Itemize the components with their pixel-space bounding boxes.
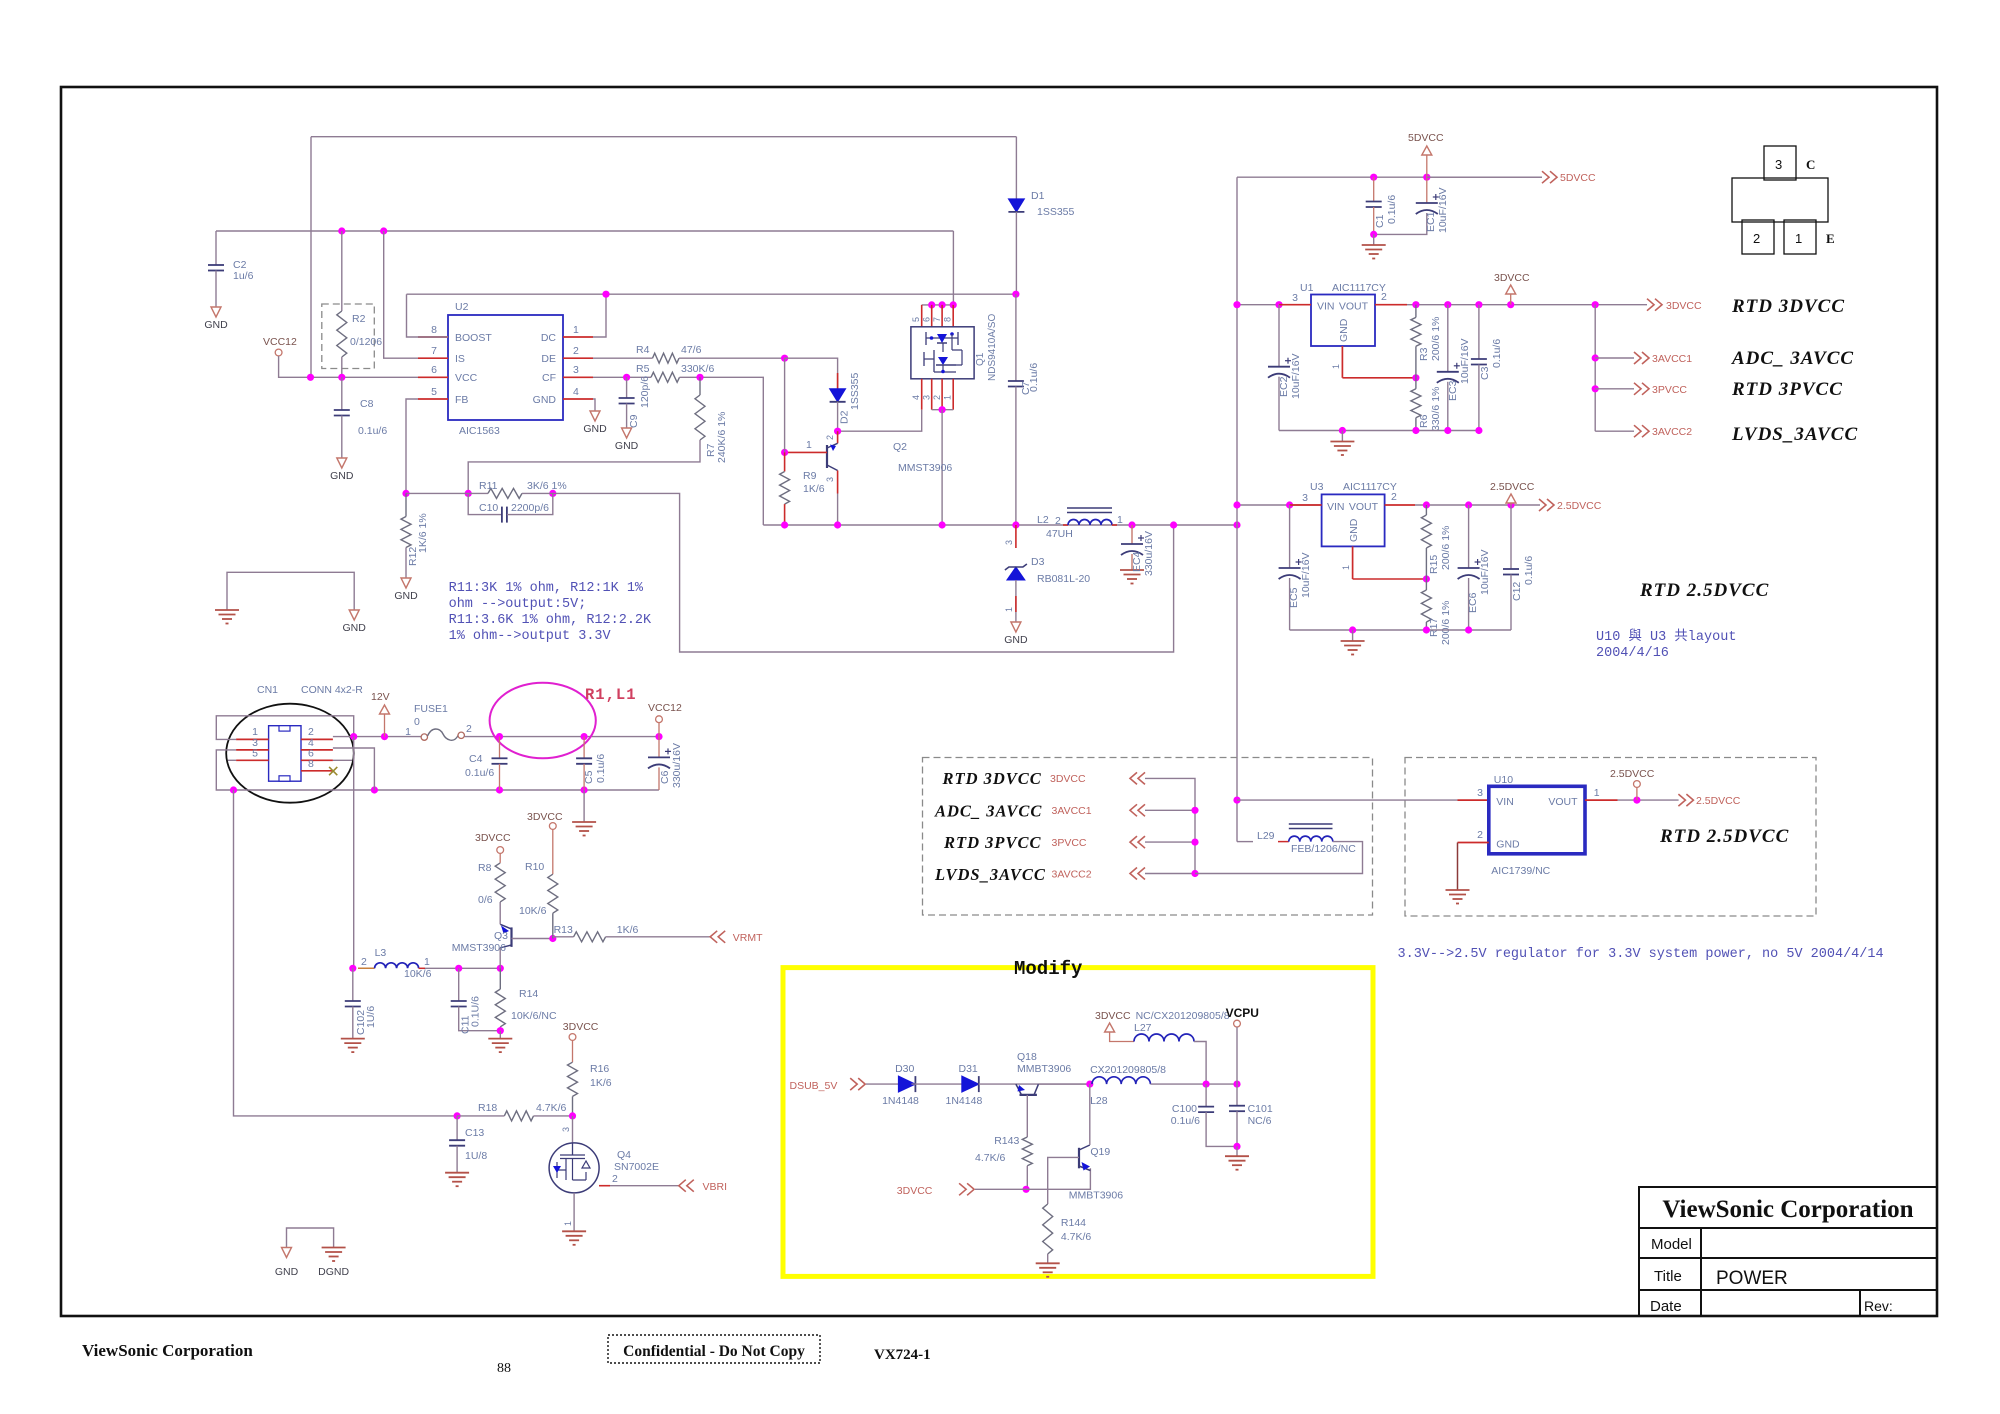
U2 pin 1 DC bbox=[563, 336, 593, 338]
connector CN1 body bbox=[269, 726, 301, 782]
svg-text:3: 3 bbox=[1775, 157, 1782, 172]
svg-text:C3: C3 bbox=[1479, 366, 1491, 380]
U2 pin 2 DE bbox=[563, 357, 593, 359]
connector CN1 ellipse bbox=[226, 704, 354, 803]
svg-text:R16: R16 bbox=[590, 1063, 609, 1075]
svg-text:D31: D31 bbox=[959, 1063, 978, 1075]
capacitor C1 bbox=[1373, 177, 1375, 201]
Q4 drain to VBRI bbox=[599, 1185, 610, 1187]
resistor R2 (dashed optional) bbox=[322, 304, 375, 369]
svg-text:4.7K/6: 4.7K/6 bbox=[975, 1152, 1006, 1164]
svg-text:NDS9410A/SO: NDS9410A/SO bbox=[987, 314, 998, 381]
wire L28 to VCPU node bbox=[1150, 1083, 1237, 1085]
op-amp U10 AIC1739/NC regulator bbox=[1489, 786, 1585, 854]
svg-text:2: 2 bbox=[1381, 291, 1387, 303]
wire DC rail y294 bbox=[407, 293, 1016, 295]
svg-text:SN7002E: SN7002E bbox=[614, 1161, 659, 1173]
svg-text:U10 與 U3 共layout: U10 與 U3 共layout bbox=[1596, 628, 1736, 645]
svg-text:GND: GND bbox=[275, 1266, 299, 1278]
resistor R143 bbox=[1022, 1137, 1032, 1166]
svg-text:GND: GND bbox=[394, 590, 418, 602]
wire gnd branch down to R18 row bbox=[234, 790, 458, 1116]
svg-text:5: 5 bbox=[252, 748, 258, 760]
svg-text:DSUB_5V: DSUB_5V bbox=[790, 1080, 838, 1092]
svg-text:GND: GND bbox=[1004, 634, 1028, 646]
wire top rail from C2 bbox=[216, 230, 953, 232]
capacitor C3 bbox=[1478, 305, 1480, 359]
svg-text:2: 2 bbox=[1055, 515, 1061, 527]
op-amp U2 AIC1563 regulator IC bbox=[448, 315, 563, 420]
svg-text:2.5DVCC: 2.5DVCC bbox=[1557, 500, 1602, 512]
wire fuse to VCC12 bbox=[464, 736, 659, 738]
svg-text:EC3: EC3 bbox=[1447, 380, 1459, 401]
svg-text:RTD 3DVCC: RTD 3DVCC bbox=[1731, 296, 1845, 317]
svg-text:DE: DE bbox=[541, 353, 556, 365]
wire L29 return to taps bbox=[1195, 842, 1363, 874]
svg-text:U3: U3 bbox=[1310, 481, 1324, 493]
wire R5 output down to switch rail bbox=[680, 377, 764, 525]
svg-text:VIN: VIN bbox=[1496, 796, 1514, 808]
svg-text:D30: D30 bbox=[895, 1063, 914, 1075]
svg-text:2: 2 bbox=[361, 956, 367, 968]
svg-text:C101: C101 bbox=[1248, 1103, 1273, 1115]
wire Q1 bottom bus bbox=[932, 409, 954, 411]
svg-text:3AVCC1: 3AVCC1 bbox=[1052, 805, 1092, 817]
svg-text:R8: R8 bbox=[478, 862, 492, 874]
transistor Q1 NDS9410A/SO mosfet bbox=[922, 304, 954, 306]
svg-text:GND: GND bbox=[1348, 518, 1360, 542]
svg-text:4.7K/6: 4.7K/6 bbox=[536, 1102, 567, 1114]
resistor R3 bbox=[1415, 305, 1417, 318]
svg-text:R18: R18 bbox=[478, 1102, 497, 1114]
svg-text:7: 7 bbox=[431, 345, 437, 357]
resistor R14 bbox=[499, 968, 501, 989]
svg-text:U10: U10 bbox=[1494, 774, 1513, 786]
svg-text:120p/6: 120p/6 bbox=[639, 376, 651, 408]
svg-text:VIN: VIN bbox=[1317, 301, 1335, 313]
dashed box RTD rails bbox=[923, 758, 1373, 916]
svg-text:10uF/16V: 10uF/16V bbox=[1459, 338, 1471, 384]
svg-text:2200p/6: 2200p/6 bbox=[511, 502, 549, 514]
svg-text:0/6: 0/6 bbox=[478, 894, 493, 906]
svg-text:5DVCC: 5DVCC bbox=[1408, 132, 1444, 144]
resistor R11 bbox=[488, 488, 522, 498]
diode D31 1N4148 bbox=[962, 1076, 979, 1092]
svg-text:Modify: Modify bbox=[1014, 958, 1083, 980]
svg-text:ohm -->output:5V;: ohm -->output:5V; bbox=[449, 597, 587, 612]
svg-text:2: 2 bbox=[1753, 231, 1760, 246]
wire tap rows and vertical bbox=[1145, 778, 1195, 873]
svg-text:200/6 1%: 200/6 1% bbox=[1440, 526, 1452, 570]
svg-text:D1: D1 bbox=[1031, 190, 1045, 202]
svg-text:0.1u/6: 0.1u/6 bbox=[1028, 363, 1040, 392]
svg-text:3AVCC1: 3AVCC1 bbox=[1652, 353, 1692, 365]
svg-text:R143: R143 bbox=[994, 1135, 1019, 1147]
svg-text:R10: R10 bbox=[525, 861, 544, 873]
U3 pin 2 VOUT bbox=[1385, 504, 1415, 506]
svg-text:1: 1 bbox=[1117, 514, 1123, 526]
CN1 pin 3 bbox=[236, 749, 269, 751]
svg-text:2: 2 bbox=[573, 345, 579, 357]
off-page connector 3AVCC1 bbox=[1595, 357, 1634, 359]
svg-text:47/6: 47/6 bbox=[681, 344, 702, 356]
resistor R16 bbox=[568, 1062, 578, 1096]
svg-text:5: 5 bbox=[431, 386, 437, 398]
resistor R7 bbox=[699, 377, 701, 395]
svg-text:Title: Title bbox=[1654, 1268, 1682, 1285]
svg-text:RTD 2.5DVCC: RTD 2.5DVCC bbox=[1639, 580, 1769, 601]
svg-text:1: 1 bbox=[806, 439, 812, 451]
svg-text:R144: R144 bbox=[1061, 1217, 1086, 1229]
wire Q1 gate feed x953 from C2 rail bbox=[952, 231, 954, 305]
svg-text:0/1206: 0/1206 bbox=[350, 336, 382, 348]
U2 pin 6 VCC bbox=[418, 376, 448, 378]
svg-text:GND: GND bbox=[583, 423, 607, 435]
svg-text:6: 6 bbox=[431, 364, 437, 376]
svg-text:LVDS_3AVCC: LVDS_3AVCC bbox=[1731, 424, 1858, 445]
svg-text:DC: DC bbox=[541, 332, 557, 344]
ground GND DGND pair bbox=[287, 1228, 334, 1248]
svg-text:EC6: EC6 bbox=[1467, 592, 1479, 613]
svg-text:1N4148: 1N4148 bbox=[882, 1095, 919, 1107]
svg-text:CF: CF bbox=[542, 372, 556, 384]
svg-text:BOOST: BOOST bbox=[455, 332, 492, 344]
svg-text:3DVCC: 3DVCC bbox=[1095, 1010, 1131, 1022]
svg-text:10K/6: 10K/6 bbox=[519, 905, 547, 917]
svg-text:1% ohm-->output 3.3V: 1% ohm-->output 3.3V bbox=[449, 629, 612, 644]
capacitor C102 bbox=[352, 968, 354, 1001]
ground tie wire bbox=[227, 572, 354, 610]
svg-text:10uF/16V: 10uF/16V bbox=[1290, 353, 1302, 399]
wire CN1 pin1-pin2 loop bbox=[216, 716, 353, 740]
off-page connector 2.5DVCC at U10 bbox=[1686, 794, 1693, 806]
wire U1 VIN row bbox=[1237, 304, 1311, 306]
wire D30 to D31 bbox=[911, 1083, 961, 1085]
svg-text:2: 2 bbox=[932, 395, 942, 400]
ground at U3 bbox=[1352, 630, 1354, 641]
svg-text:MMST3906: MMST3906 bbox=[452, 942, 506, 954]
svg-text:R11: R11 bbox=[479, 480, 498, 492]
svg-text:3: 3 bbox=[561, 1127, 571, 1132]
wire Q2 base bbox=[785, 451, 827, 453]
wire U1 ground rail bbox=[1279, 430, 1479, 432]
resistor R4 bbox=[653, 353, 680, 363]
capacitor C12 bbox=[1510, 505, 1512, 569]
svg-text:C: C bbox=[1806, 157, 1815, 172]
wire U3 VIN row bbox=[1237, 504, 1322, 506]
svg-text:5: 5 bbox=[911, 317, 921, 322]
U2 pin 4 GND bbox=[563, 398, 593, 400]
svg-text:C6: C6 bbox=[659, 770, 671, 784]
svg-text:4: 4 bbox=[911, 395, 921, 400]
wire CN1 pin5 stub bbox=[228, 759, 236, 761]
svg-text:10K/6: 10K/6 bbox=[404, 968, 432, 980]
svg-text:RTD 2.5DVCC: RTD 2.5DVCC bbox=[1659, 826, 1789, 847]
svg-text:C12: C12 bbox=[1511, 582, 1523, 601]
resistor R8 bbox=[495, 863, 505, 902]
wire upper rail to D1 bbox=[311, 136, 1016, 138]
svg-text:8: 8 bbox=[308, 758, 314, 770]
svg-text:7: 7 bbox=[932, 317, 942, 322]
capacitor EC5 bbox=[1289, 505, 1291, 568]
wire 3DVCC row bbox=[975, 1168, 1090, 1189]
capacitor C9 bbox=[626, 377, 628, 398]
node FB divider bbox=[402, 490, 409, 497]
svg-text:U1: U1 bbox=[1300, 282, 1314, 294]
diode D1 1SS355 bbox=[1015, 137, 1017, 199]
inductor L29 FEB/1206/NC bbox=[1237, 841, 1253, 843]
wire feedback from divider to output bbox=[553, 493, 1174, 652]
svg-text:R3: R3 bbox=[1418, 347, 1430, 361]
resistor R12 bbox=[405, 493, 407, 516]
svg-text:Q4: Q4 bbox=[617, 1149, 631, 1161]
svg-text:C100: C100 bbox=[1172, 1103, 1197, 1115]
svg-text:2: 2 bbox=[1391, 491, 1397, 503]
svg-text:MMST3906: MMST3906 bbox=[898, 462, 952, 474]
svg-text:12V: 12V bbox=[371, 691, 390, 703]
capacitor C4 bbox=[499, 737, 501, 759]
svg-text:10uF/16V: 10uF/16V bbox=[1437, 187, 1449, 233]
svg-text:C4: C4 bbox=[469, 753, 483, 765]
svg-text:R4: R4 bbox=[636, 344, 650, 356]
capacitor C7 bbox=[1015, 294, 1017, 381]
svg-text:GND: GND bbox=[343, 622, 367, 634]
svg-text:1N4148: 1N4148 bbox=[946, 1095, 983, 1107]
svg-text:R9: R9 bbox=[803, 470, 817, 482]
svg-text:MMBT3906: MMBT3906 bbox=[1069, 1190, 1123, 1202]
svg-text:47UH: 47UH bbox=[1046, 528, 1073, 540]
wire DSUB to D30 bbox=[866, 1083, 898, 1085]
svg-text:3AVCC2: 3AVCC2 bbox=[1652, 426, 1692, 438]
resistor R9 bbox=[784, 452, 786, 471]
svg-text:3DVCC: 3DVCC bbox=[527, 811, 563, 823]
svg-text:RB081L-20: RB081L-20 bbox=[1037, 573, 1090, 585]
svg-text:C5: C5 bbox=[583, 770, 595, 784]
resistor R18 bbox=[454, 1112, 461, 1119]
capacitor C2 bbox=[215, 231, 217, 265]
wire main supply vertical bbox=[1236, 177, 1238, 841]
svg-text:Q1: Q1 bbox=[975, 352, 986, 366]
off-page connector 3DVCC bbox=[1655, 299, 1662, 311]
wire U3 output row bbox=[1415, 504, 1540, 506]
svg-text:3.3V-->2.5V regulator for 3.3V: 3.3V-->2.5V regulator for 3.3V system po… bbox=[1398, 947, 1884, 962]
svg-text:Q18: Q18 bbox=[1017, 1051, 1037, 1063]
svg-text:3PVCC: 3PVCC bbox=[1652, 384, 1687, 396]
svg-text:VRMT: VRMT bbox=[733, 932, 763, 944]
svg-text:1: 1 bbox=[1341, 565, 1351, 570]
wire DC pin up bbox=[593, 294, 606, 337]
wire U3 ground rail bbox=[1290, 629, 1511, 631]
svg-text:CX201209805/8: CX201209805/8 bbox=[1090, 1064, 1166, 1076]
svg-text:Confidential - Do Not Copy: Confidential - Do Not Copy bbox=[623, 1343, 805, 1360]
svg-text:8: 8 bbox=[943, 317, 953, 322]
svg-text:2.5DVCC: 2.5DVCC bbox=[1696, 795, 1741, 807]
svg-text:3: 3 bbox=[1292, 292, 1298, 304]
svg-text:1K/6: 1K/6 bbox=[590, 1077, 612, 1089]
CN1 pin 2 bbox=[301, 738, 333, 740]
svg-text:R15: R15 bbox=[1428, 555, 1440, 574]
wire 3AVCC tap vertical bbox=[1594, 305, 1596, 432]
svg-text:GND: GND bbox=[204, 319, 228, 331]
wire Q18 collector to node bbox=[1039, 1083, 1090, 1085]
capacitor C5 bbox=[583, 737, 585, 759]
svg-text:0.1U/6: 0.1U/6 bbox=[470, 996, 482, 1027]
capacitor C100 bbox=[1205, 1084, 1207, 1107]
wire R4 to node bbox=[679, 357, 785, 359]
svg-text:MMBT3906: MMBT3906 bbox=[1017, 1063, 1071, 1075]
svg-text:0: 0 bbox=[414, 716, 420, 728]
diode D3 RB081L-20 zener bbox=[1015, 525, 1017, 548]
svg-text:VBRI: VBRI bbox=[703, 1181, 728, 1193]
svg-text:3: 3 bbox=[1004, 540, 1014, 545]
svg-text:200/6 1%: 200/6 1% bbox=[1440, 601, 1452, 645]
svg-text:0.1u/6: 0.1u/6 bbox=[1491, 339, 1503, 368]
resistor R15 bbox=[1425, 505, 1427, 515]
wire FB feedback bbox=[406, 399, 418, 493]
svg-text:1: 1 bbox=[1004, 607, 1014, 612]
svg-text:1: 1 bbox=[1795, 231, 1802, 246]
wire DE row bbox=[593, 357, 653, 359]
CN1 pin 1 bbox=[236, 738, 269, 740]
svg-text:2.5DVCC: 2.5DVCC bbox=[1490, 481, 1535, 493]
resistor R5 bbox=[651, 372, 680, 382]
svg-text:1K/6: 1K/6 bbox=[617, 924, 639, 936]
svg-text:3DVCC: 3DVCC bbox=[1666, 300, 1702, 312]
svg-text:IS: IS bbox=[455, 353, 465, 365]
svg-text:FB: FB bbox=[455, 394, 468, 406]
svg-text:3DVCC: 3DVCC bbox=[563, 1021, 599, 1033]
svg-text:10uF/16V: 10uF/16V bbox=[1300, 552, 1312, 598]
svg-text:D3: D3 bbox=[1031, 556, 1045, 568]
svg-text:330u/16V: 330u/16V bbox=[1143, 531, 1155, 576]
wire pin2 row to fuse bbox=[333, 736, 424, 738]
capacitor C8 bbox=[341, 377, 343, 410]
U3 pin 1 GND bbox=[1352, 546, 1354, 579]
off-page connector 3AVCC2 bbox=[1595, 430, 1634, 432]
dashed box U10 regulator bbox=[1405, 758, 1816, 917]
ground arrow right bbox=[349, 610, 359, 620]
svg-text:3: 3 bbox=[922, 395, 932, 400]
svg-text:C10: C10 bbox=[479, 502, 498, 514]
svg-text:C13: C13 bbox=[465, 1127, 484, 1139]
svg-text:1: 1 bbox=[573, 324, 579, 336]
U2 pin 7 IS bbox=[418, 357, 448, 359]
capacitor C13 bbox=[456, 1116, 458, 1140]
ground at C100 C101 bbox=[1236, 1146, 1238, 1156]
svg-text:240K/6 1%: 240K/6 1% bbox=[716, 412, 728, 463]
U2 pin 5 FB bbox=[418, 398, 448, 400]
wire CN1 pin6 stub bbox=[333, 759, 352, 761]
svg-text:3: 3 bbox=[825, 477, 835, 482]
capacitor EC3 bbox=[1447, 305, 1449, 372]
svg-text:330u/16V: 330u/16V bbox=[671, 743, 683, 788]
transistor Q3 MMST3906 bbox=[510, 927, 512, 947]
svg-text:POWER: POWER bbox=[1716, 1268, 1788, 1289]
svg-text:1U/6: 1U/6 bbox=[365, 1006, 377, 1028]
svg-text:RTD 3PVCC: RTD 3PVCC bbox=[943, 833, 1041, 852]
svg-text:R11:3K 1% ohm, R12:1K 1%: R11:3K 1% ohm, R12:1K 1% bbox=[449, 581, 644, 596]
svg-text:2: 2 bbox=[825, 435, 835, 440]
capacitor C11 bbox=[458, 968, 460, 1001]
svg-text:0.1u/6: 0.1u/6 bbox=[1523, 556, 1535, 585]
svg-text:EC5: EC5 bbox=[1288, 587, 1300, 608]
capacitor C6 330u/16V bbox=[658, 737, 660, 758]
capacitor EC6 bbox=[1468, 505, 1470, 568]
svg-text:VIN: VIN bbox=[1327, 501, 1345, 513]
svg-text:Rev:: Rev: bbox=[1864, 1298, 1893, 1314]
svg-text:R13: R13 bbox=[554, 924, 573, 936]
svg-text:VOUT: VOUT bbox=[1339, 301, 1369, 313]
transistor Q2 MMST3906 bbox=[837, 431, 839, 443]
svg-text:DGND: DGND bbox=[318, 1266, 349, 1278]
svg-text:0.1u/6: 0.1u/6 bbox=[465, 767, 494, 779]
Q4 source ground bbox=[573, 1193, 575, 1231]
wire Q3 base row bbox=[512, 938, 553, 940]
svg-text:6: 6 bbox=[922, 317, 932, 322]
svg-text:VCPU: VCPU bbox=[1226, 1006, 1259, 1020]
svg-text:1u/6: 1u/6 bbox=[233, 270, 254, 282]
wire vertical x311 to VCC row bbox=[310, 137, 312, 378]
U10 pin 2 GND bbox=[1458, 842, 1489, 844]
svg-text:330K/6: 330K/6 bbox=[681, 363, 714, 375]
svg-text:0.1u/6: 0.1u/6 bbox=[1386, 195, 1398, 224]
svg-text:1SS355: 1SS355 bbox=[849, 372, 861, 410]
svg-text:1: 1 bbox=[424, 956, 430, 968]
svg-text:3: 3 bbox=[1477, 787, 1483, 799]
svg-text:GND: GND bbox=[533, 394, 557, 406]
svg-text:ADC_ 3AVCC: ADC_ 3AVCC bbox=[934, 802, 1042, 821]
svg-text:Model: Model bbox=[1651, 1236, 1692, 1253]
svg-text:10uF/16V: 10uF/16V bbox=[1479, 549, 1491, 595]
svg-text:1: 1 bbox=[405, 726, 411, 738]
ground at U2 pin 4 bbox=[593, 399, 595, 411]
wire Q18 base down to R143 bbox=[1026, 1095, 1028, 1137]
svg-text:3K/6 1%: 3K/6 1% bbox=[527, 480, 567, 492]
wire D31 to Q18 bbox=[979, 1083, 1090, 1085]
svg-text:NC/CX201209805/8: NC/CX201209805/8 bbox=[1136, 1010, 1230, 1022]
svg-text:R5: R5 bbox=[636, 363, 650, 375]
svg-text:1: 1 bbox=[1594, 787, 1600, 799]
svg-text:Q3: Q3 bbox=[494, 930, 508, 942]
ground at U1 bbox=[1341, 431, 1343, 442]
svg-text:10K/6/NC: 10K/6/NC bbox=[511, 1010, 557, 1022]
svg-text:EC4: EC4 bbox=[1131, 551, 1143, 572]
svg-text:GND: GND bbox=[615, 440, 639, 452]
svg-text:C9: C9 bbox=[628, 414, 640, 428]
ellipse R1 L1 highlight bbox=[490, 683, 596, 759]
svg-text:E: E bbox=[1826, 231, 1835, 246]
off-page connector 2.5DVCC at U3 bbox=[1547, 499, 1554, 511]
wire main vertical to U10 row bbox=[1233, 797, 1240, 804]
svg-text:L27: L27 bbox=[1134, 1022, 1152, 1034]
svg-text:3DVCC: 3DVCC bbox=[1050, 773, 1086, 785]
svg-text:EC1: EC1 bbox=[1425, 211, 1437, 232]
svg-text:3PVCC: 3PVCC bbox=[1052, 837, 1087, 849]
svg-text:R17: R17 bbox=[1428, 618, 1440, 637]
svg-text:VX724-1: VX724-1 bbox=[874, 1347, 931, 1363]
off-page connector 3PVCC bbox=[1595, 388, 1634, 390]
svg-text:1: 1 bbox=[563, 1221, 573, 1226]
U1 pin 1 GND bbox=[1341, 346, 1343, 378]
svg-text:1: 1 bbox=[1331, 364, 1341, 369]
svg-text:R6: R6 bbox=[1418, 414, 1430, 428]
svg-text:Q2: Q2 bbox=[893, 441, 907, 453]
svg-text:CN1: CN1 bbox=[257, 684, 278, 696]
svg-text:R1,L1: R1,L1 bbox=[585, 686, 637, 704]
capacitor EC2 bbox=[1278, 305, 1280, 367]
svg-text:3AVCC2: 3AVCC2 bbox=[1052, 869, 1092, 881]
svg-text:8: 8 bbox=[431, 324, 437, 336]
